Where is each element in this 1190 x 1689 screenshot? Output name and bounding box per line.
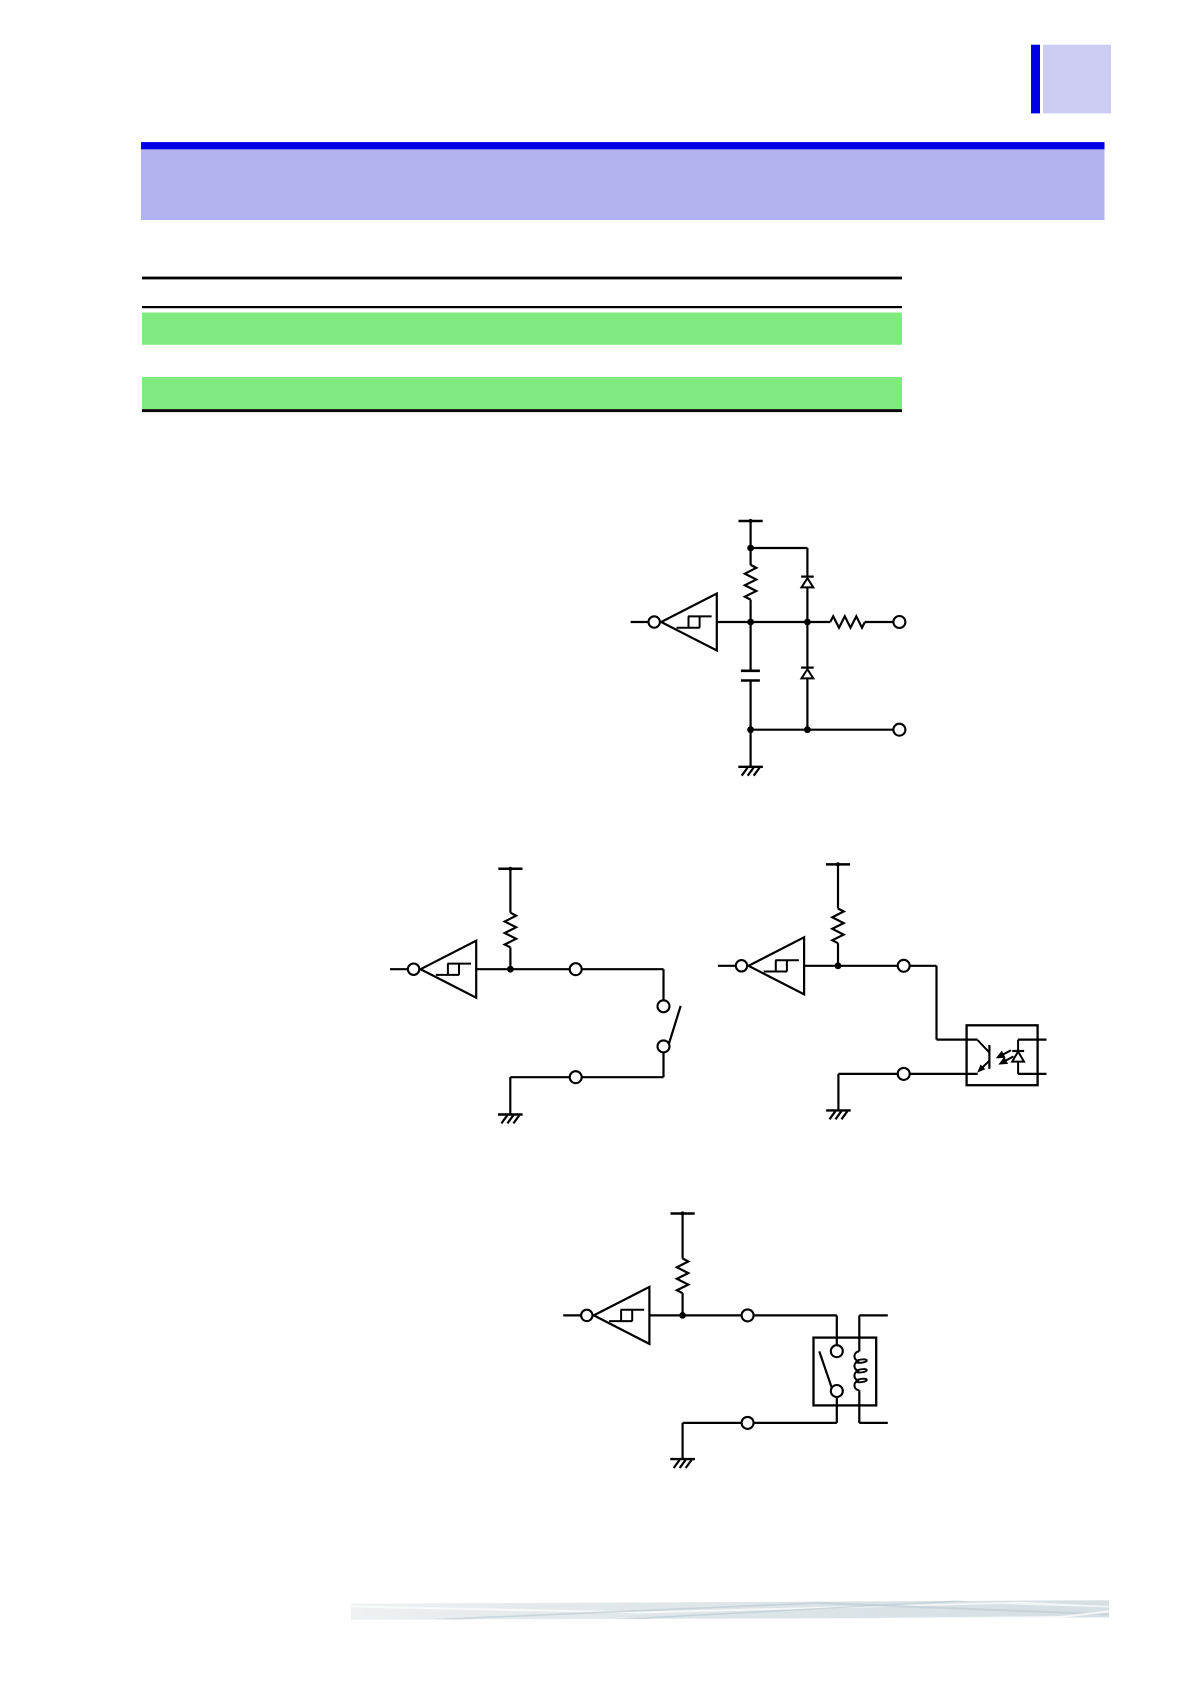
node D junction	[747, 726, 754, 733]
wire node A to diode branch	[751, 547, 808, 549]
relay contact (lower)	[831, 1385, 843, 1397]
wire bottom rail to terminal T8	[754, 1422, 837, 1424]
wire terminal T4 to ground riser	[510, 1076, 569, 1078]
LED D3 triangle	[1012, 1052, 1024, 1062]
switch S1 contact (upper)	[658, 1000, 670, 1012]
wire terminal T6 to ground riser	[838, 1073, 897, 1075]
relay K1 package outline	[814, 1338, 877, 1406]
section rule line 1	[142, 277, 902, 280]
Schmitt trigger U2	[390, 941, 476, 998]
wire R1 to node B	[749, 600, 751, 622]
wire photocoupler pin 4 stub (top right)	[1018, 1038, 1046, 1040]
relay contact (upper)	[831, 1345, 843, 1357]
diode D2 (clamp to ground)	[801, 668, 814, 679]
wire U1 input from node B	[717, 621, 751, 623]
wire U4 input from node H	[649, 1314, 682, 1316]
resistor R2 (series input)	[830, 616, 865, 627]
wire to diode D1 cathode	[806, 548, 808, 577]
phototransistor Q1 emitter lead with arrow	[977, 1061, 989, 1073]
terminal T1 (signal input)	[893, 616, 905, 628]
wire ground riser (circuit 2)	[509, 1077, 511, 1114]
wire U2 input from node F	[476, 968, 510, 970]
Schmitt trigger U3	[718, 937, 804, 994]
wire node C to resistor R2	[807, 621, 830, 623]
title band lavender fill	[141, 149, 1105, 220]
wire terminal T3 to switch	[582, 968, 664, 970]
phototransistor Q1 base bar	[988, 1045, 990, 1069]
power supply rail (circuit 1)	[739, 519, 763, 523]
wire ground riser (circuit 4)	[681, 1423, 683, 1459]
terminal T5 (trigger input)	[898, 960, 910, 972]
wire down to switch S1	[662, 969, 664, 1000]
photocoupler U5 package outline	[967, 1025, 1038, 1085]
wire ground riser (circuit 3)	[837, 1074, 839, 1111]
wire terminal T8 to ground riser	[683, 1422, 742, 1424]
wire R2 to terminal T1	[865, 621, 894, 623]
node F junction	[507, 966, 514, 973]
terminal T7 (trigger input)	[742, 1309, 754, 1321]
wire down to relay contact	[836, 1315, 838, 1345]
resistor R1 (pull-up)	[745, 565, 756, 600]
wire photocoupler pin 3 stub (bottom right)	[1018, 1073, 1046, 1075]
diode D1 (clamp to supply)	[801, 577, 814, 588]
section rule line 3	[142, 409, 902, 412]
LED D3 cathode bar	[1012, 1050, 1024, 1052]
wire node F to terminal T3	[510, 968, 569, 970]
power supply rail (circuit 3)	[826, 862, 850, 866]
wire coil bottom stub	[859, 1422, 888, 1424]
relay coil L1 top lead	[858, 1315, 860, 1351]
node A junction	[747, 545, 754, 552]
Schmitt trigger U4	[563, 1287, 649, 1344]
wire node C to diode D2	[806, 622, 808, 668]
capacitor C1	[741, 671, 760, 681]
wire power to node A	[749, 521, 751, 548]
ground (circuit 1)	[738, 767, 763, 776]
ground (circuit 3)	[826, 1110, 851, 1119]
wire node E to terminal T2	[807, 729, 893, 731]
wire node D to ground	[749, 730, 751, 767]
wire C1 to node D	[749, 681, 751, 730]
phototransistor Q1 collector lead	[978, 1040, 990, 1052]
wire node H to terminal T7	[683, 1314, 742, 1316]
wire D2 anode to node E	[806, 678, 808, 729]
node H junction	[679, 1312, 686, 1319]
node E junction	[804, 726, 811, 733]
node G junction	[835, 962, 842, 969]
relay coil L1	[854, 1351, 859, 1390]
wire R5 to node H	[681, 1293, 683, 1315]
title band dark blue rule	[141, 142, 1105, 149]
wire U3 input from node G	[804, 965, 838, 967]
power supply rail (circuit 4)	[671, 1211, 695, 1215]
wire down to photocoupler	[935, 966, 937, 1040]
wire node G to terminal T5	[838, 965, 898, 967]
ground (circuit 4)	[670, 1459, 695, 1468]
Schmitt trigger U1	[631, 594, 717, 651]
terminal T2 (signal ground)	[893, 724, 905, 736]
LED D3 anode lead	[1017, 1062, 1019, 1074]
wire R3 to node F	[509, 947, 511, 969]
switch S1 blade	[669, 1006, 681, 1044]
relay coil L1 bottom lead	[858, 1390, 860, 1423]
wire power to resistor R5	[681, 1214, 683, 1259]
wire terminal T5 right	[910, 965, 937, 967]
footer decorative wave band	[351, 1600, 1109, 1620]
resistor R3 (pull-up)	[505, 913, 516, 948]
power supply rail (circuit 2)	[498, 867, 522, 871]
section rule line 2	[142, 306, 902, 308]
wire node B to capacitor C1	[749, 622, 751, 671]
wire relay contact to bottom rail	[836, 1397, 838, 1423]
node B junction	[747, 619, 754, 626]
wire R4 to node G	[837, 943, 839, 966]
wire coil top stub	[859, 1314, 888, 1316]
ground (circuit 2)	[498, 1115, 523, 1124]
relay contact blade	[819, 1351, 832, 1390]
terminal T3 (trigger input)	[570, 963, 582, 975]
light arrows LED to transistor	[996, 1050, 1014, 1064]
chapter tab square (top right lavender)	[1043, 45, 1111, 114]
wire switch S1 to bottom rail	[662, 1053, 664, 1078]
green highlight bar 2	[142, 377, 902, 409]
wire node A to resistor R1	[749, 548, 751, 565]
wire node D to node E	[751, 729, 808, 731]
node C junction	[804, 619, 811, 626]
resistor R5 (pull-up)	[677, 1259, 688, 1294]
switch S1 contact (lower)	[658, 1040, 670, 1052]
wire terminal T7 to relay	[754, 1314, 837, 1316]
wire photocoupler pin 2 (emitter) to terminal	[910, 1073, 978, 1075]
terminal T6 (trigger ground)	[898, 1068, 910, 1080]
green highlight bar 1	[142, 313, 902, 345]
wire bottom rail to terminal T4	[582, 1076, 664, 1078]
terminal T8 (trigger ground)	[742, 1417, 754, 1429]
wire power to resistor R4	[837, 864, 839, 908]
chapter tab bar (top right dark blue)	[1031, 45, 1040, 114]
terminal T4 (trigger ground)	[570, 1071, 582, 1083]
wire node B to node C	[751, 621, 808, 623]
resistor R4 (pull-up)	[832, 909, 843, 944]
wire power to resistor R3	[509, 869, 511, 913]
LED D3 cathode lead	[1017, 1040, 1019, 1051]
wire D1 anode to node C	[806, 587, 808, 622]
wire photocoupler pin 1 (collector)	[937, 1038, 978, 1040]
